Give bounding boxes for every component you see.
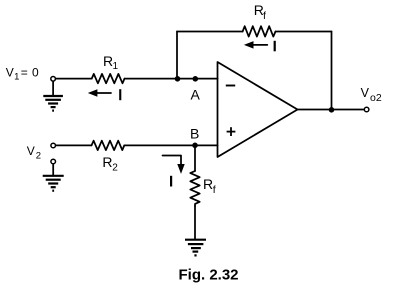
wire feedback left vertical <box>176 32 178 79</box>
op-amp U1 triangle <box>218 62 298 157</box>
arrowhead I R1 <box>89 90 97 96</box>
svg-text:o2: o2 <box>370 92 382 104</box>
node A junction dot (left) <box>175 76 181 82</box>
terminal Vo2 open circle <box>364 107 369 112</box>
wire V1 terminal to ground <box>52 81 54 96</box>
node A junction dot (right) <box>193 76 199 82</box>
resistor R2 <box>92 141 125 150</box>
svg-text:1: 1 <box>113 61 119 72</box>
resistor Rf (feedback) <box>243 26 276 36</box>
wire node B down to Rf <box>194 145 196 171</box>
svg-text:1: 1 <box>14 72 19 83</box>
svg-text:R: R <box>102 154 112 170</box>
arrow current I (R1) <box>96 92 111 94</box>
label I feedback <box>274 41 276 52</box>
terminal V2 ground-side open circle <box>51 159 56 164</box>
ground symbol V1 <box>43 96 63 111</box>
node B junction dot <box>192 143 198 149</box>
svg-text:V: V <box>361 86 370 100</box>
svg-text:V: V <box>6 66 14 80</box>
svg-text:0: 0 <box>32 66 39 80</box>
op-amp minus sign <box>226 85 235 87</box>
resistor R1 <box>92 74 125 83</box>
svg-text:Fig. 2.32: Fig. 2.32 <box>179 266 239 283</box>
wire Rf to ground <box>194 206 196 240</box>
wire feedback right vertical <box>331 32 333 111</box>
svg-text:f: f <box>213 184 216 196</box>
arrowhead I feedback <box>245 42 253 48</box>
svg-text:f: f <box>263 10 266 22</box>
svg-text:V: V <box>27 144 35 158</box>
wire R2 to op-amp non-inverting input <box>124 144 217 146</box>
arrow current I (into Rf) L-shaped <box>163 156 182 169</box>
ground symbol Rf bottom <box>185 240 206 256</box>
terminal V1 open circle <box>51 77 56 82</box>
wire feedback top horizontal left <box>177 31 243 33</box>
wire V2 lower terminal to ground <box>52 164 54 176</box>
op-amp output wire <box>298 109 365 111</box>
wire V2 to R2 <box>55 144 91 146</box>
svg-text:R: R <box>203 176 213 192</box>
op-amp plus sign <box>227 127 236 136</box>
svg-text:=: = <box>21 66 28 80</box>
label I under R1 <box>119 89 121 100</box>
wire R1 to op-amp inverting input <box>125 78 218 80</box>
arrowhead I into Rf <box>178 165 184 173</box>
label I into Rf <box>170 176 172 187</box>
resistor Rf (grounding) <box>190 171 199 206</box>
svg-text:2: 2 <box>36 150 41 161</box>
svg-text:2: 2 <box>112 163 118 174</box>
wire feedback top horizontal right <box>276 31 332 33</box>
ground symbol V2 <box>43 176 64 191</box>
terminal V2 open circle <box>51 143 56 148</box>
svg-text:B: B <box>190 125 199 141</box>
svg-text:A: A <box>191 87 201 103</box>
output junction dot <box>329 107 335 113</box>
wire V1 to R1 <box>55 78 91 80</box>
arrow current I (feedback) <box>252 44 267 46</box>
